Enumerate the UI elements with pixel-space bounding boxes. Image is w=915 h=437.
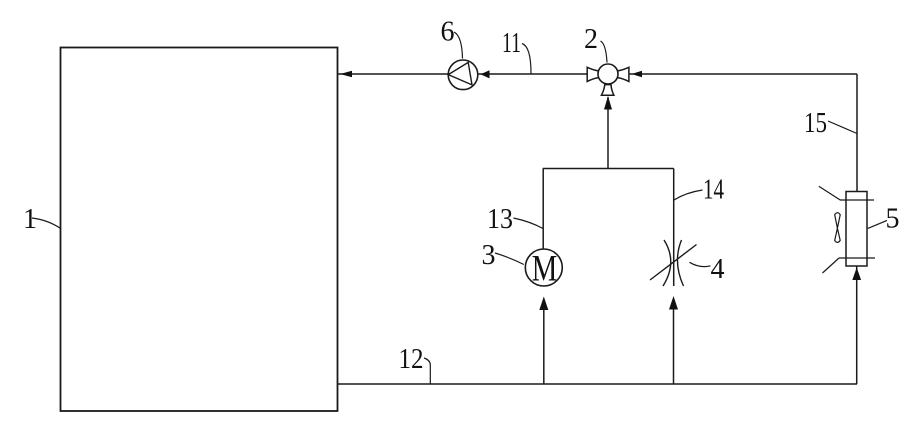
leader line for label 4	[690, 262, 711, 266]
wire: junction header line 13/14	[543, 168, 674, 170]
three-way valve 2	[587, 64, 629, 95]
arrow into valve 2 (points left)	[632, 71, 642, 78]
svg-text:12: 12	[399, 344, 424, 375]
heat exchanger 5 (vertical rectangle with ticks)	[819, 186, 875, 273]
svg-text:2: 2	[584, 24, 598, 55]
svg-text:M: M	[532, 249, 558, 290]
throttle valve 4 (variable restrictor)	[650, 240, 697, 286]
tank 1 (large rectangle)	[61, 48, 338, 412]
wire 15: right riser from top pipe down to heat exchanger 5	[856, 74, 858, 192]
wire: bottom pipe 12	[338, 383, 858, 385]
leader line for label 12	[424, 358, 430, 384]
leader line for label 13	[514, 218, 544, 229]
svg-text:1: 1	[23, 204, 37, 235]
leader line for label 6	[454, 32, 463, 59]
svg-text:4: 4	[711, 254, 725, 285]
svg-text:5: 5	[886, 204, 900, 235]
wire: from bottom pipe up to motor 3 with arrow	[543, 308, 545, 384]
leader line for label 3	[495, 253, 524, 265]
wire: top pipe between pump and valve 2	[478, 73, 588, 75]
wire 13: left branch down to motor 3	[542, 169, 544, 250]
svg-text:14: 14	[703, 175, 724, 206]
leader line for label 2	[601, 41, 608, 63]
arrow up into motor 3	[539, 297, 548, 311]
pump 6 (circle with inscribed triangle)	[448, 60, 478, 90]
svg-text:13: 13	[487, 204, 513, 235]
svg-text:6: 6	[441, 17, 455, 48]
arrow up into valve 2	[604, 96, 612, 110]
leader line for label 11	[522, 44, 531, 74]
arrow up into heat exchanger 5	[852, 268, 861, 281]
leader line for label 14	[674, 190, 703, 200]
motor 3 (circle with M)	[525, 249, 562, 286]
arrow after pump (points left)	[481, 70, 490, 78]
leader line for label 1	[32, 218, 60, 228]
svg-text:11: 11	[502, 28, 521, 59]
wire: from bottom pipe up to throttle 4 with arrow	[673, 307, 675, 384]
svg-text:3: 3	[482, 240, 496, 271]
fan beside heat exchanger 5	[835, 213, 841, 243]
wire 14: right branch down to throttle 4	[673, 169, 675, 287]
leader line for label 15	[828, 121, 857, 134]
svg-text:15: 15	[804, 108, 827, 139]
wire: from bottom pipe up to heat exchanger 5 with arrow	[856, 266, 858, 384]
arrow into tank 1 (points left)	[340, 71, 352, 77]
leader line for label 5	[868, 220, 887, 228]
arrow up into throttle 4	[669, 296, 678, 310]
wire: top pipe from right corner to valve 2	[629, 73, 857, 75]
wire: riser from junction up to valve 2 bottom port	[607, 97, 609, 169]
wire: top pipe 11 from tank to pump	[338, 73, 448, 75]
